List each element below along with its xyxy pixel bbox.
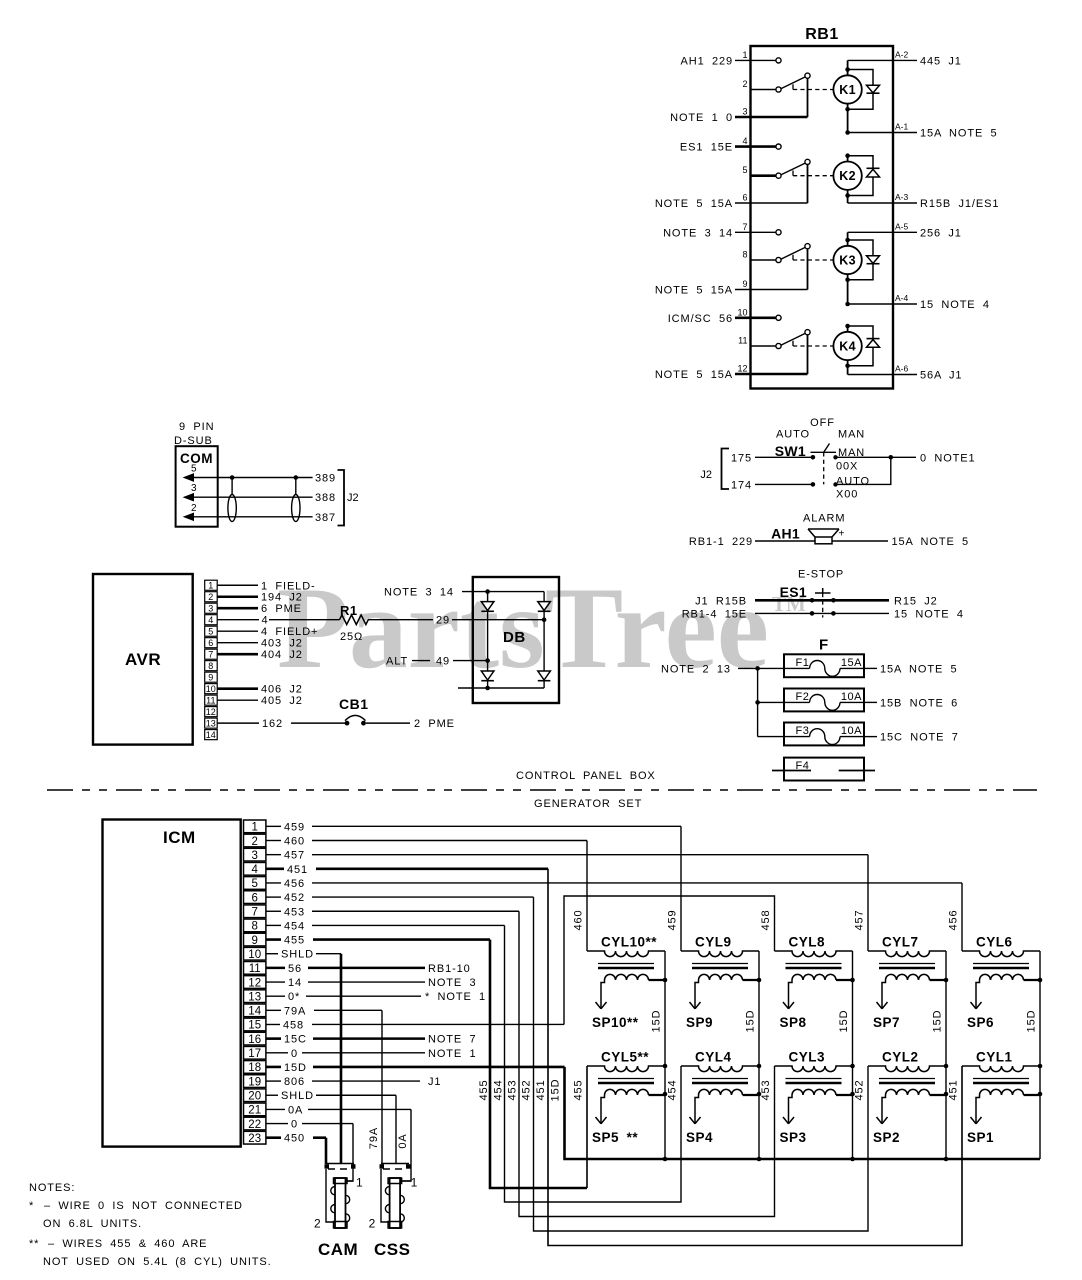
relay board RB1 — [751, 46, 894, 389]
sensor CAM body contacts — [331, 1187, 335, 1195]
svg-text:453: 453 — [760, 1079, 772, 1100]
svg-text:456: 456 — [284, 878, 305, 890]
svg-text:CB1: CB1 — [339, 696, 369, 712]
fuse feed junction — [755, 666, 760, 671]
wire CYL5 secondary to 15D rail — [649, 1094, 666, 1096]
wire 15D rail column CYL9 — [758, 951, 760, 1159]
COM pin 5 arrow — [193, 477, 218, 479]
DB top node — [485, 589, 490, 594]
RB1 output A-6 wire 56A J1 — [848, 374, 917, 376]
svg-text:NOTE 5 15A: NOTE 5 15A — [655, 285, 733, 297]
fuse F3 10A — [784, 723, 864, 746]
svg-text:CYL8: CYL8 — [789, 935, 826, 950]
svg-text:NOTE 7: NOTE 7 — [428, 1034, 477, 1046]
wire 4 from AVR pin 4 — [217, 619, 259, 621]
RB1 relay K3 actuator dashed link — [792, 255, 794, 260]
svg-text:5: 5 — [251, 878, 257, 890]
svg-text:16: 16 — [248, 1034, 261, 1046]
svg-text:K1: K1 — [839, 83, 856, 97]
svg-text:15D: 15D — [838, 1010, 850, 1033]
SW1 output contacts — [833, 455, 837, 459]
svg-text:7: 7 — [251, 907, 257, 919]
svg-text:6: 6 — [742, 193, 747, 203]
svg-text:56: 56 — [288, 963, 302, 975]
svg-text:NOTE 5 15A: NOTE 5 15A — [655, 198, 733, 210]
svg-text:5: 5 — [742, 165, 747, 175]
wire 6 PME from AVR pin 3 — [217, 607, 258, 610]
svg-text:ON 6.8L UNITS.: ON 6.8L UNITS. — [43, 1218, 142, 1230]
fuse F2 10A — [784, 689, 864, 712]
svg-text:458: 458 — [283, 1019, 304, 1031]
RB1 pin8 contact — [776, 257, 781, 262]
wire 0 from ICM pin 17 — [266, 1052, 288, 1054]
svg-text:AUTO: AUTO — [836, 476, 870, 488]
svg-text:3: 3 — [208, 604, 213, 614]
DB diode 4 — [538, 671, 551, 680]
wire 0A from ICM pin 21 — [266, 1108, 285, 1110]
wire 1 FIELD- from AVR pin 1 — [217, 584, 258, 586]
J2 bracket — [722, 449, 730, 490]
node CYL4 secondary junction — [757, 1092, 762, 1097]
sensor CSS pin2 drain wire — [381, 1169, 390, 1222]
svg-text:MAN: MAN — [838, 429, 865, 441]
svg-text:NOTE 1 0: NOTE 1 0 — [670, 112, 733, 124]
svg-text:4: 4 — [262, 615, 269, 627]
wire 15D rail column CYL7 — [945, 951, 947, 1159]
svg-text:14: 14 — [206, 730, 216, 740]
svg-text:452: 452 — [521, 1079, 533, 1100]
svg-text:2: 2 — [251, 836, 257, 848]
svg-text:– WIRES 455 & 460 ARE: – WIRES 455 & 460 ARE — [48, 1238, 207, 1250]
svg-text:11: 11 — [206, 696, 215, 706]
DB bottom node — [485, 686, 490, 691]
RB1 relay K4 actuator dashed link — [792, 341, 794, 346]
svg-text:CYL10**: CYL10** — [601, 935, 657, 950]
wire 194 J2 from AVR pin 2 — [217, 595, 258, 598]
svg-text:29: 29 — [436, 615, 450, 627]
svg-text:14: 14 — [288, 977, 302, 989]
svg-text:CYL1: CYL1 — [976, 1050, 1013, 1065]
wire 388 — [218, 496, 313, 498]
wire SW1 lower to junction — [836, 457, 891, 484]
svg-text:389: 389 — [315, 473, 336, 485]
svg-text:1: 1 — [411, 1176, 418, 1190]
sensor connector CSS body — [390, 1178, 401, 1228]
svg-text:15C: 15C — [284, 1034, 307, 1046]
relay K2 diode branch — [845, 153, 850, 158]
svg-text:15D: 15D — [1026, 1010, 1038, 1033]
svg-text:F2: F2 — [796, 691, 810, 703]
fuse F3 element — [784, 736, 810, 738]
DB left rail — [487, 592, 489, 688]
svg-text:SP9: SP9 — [686, 1015, 713, 1030]
svg-text:8: 8 — [742, 250, 747, 260]
svg-text:1: 1 — [208, 581, 213, 591]
node junction — [889, 455, 894, 460]
sensor CSS body contacts — [385, 1187, 389, 1195]
wire 15D rail column CYL8 — [852, 951, 854, 1159]
svg-text:459: 459 — [667, 909, 679, 930]
DB bottom wire — [458, 687, 544, 689]
svg-text:388: 388 — [315, 492, 336, 504]
wire 387 — [218, 516, 313, 518]
diode bridge DB — [473, 577, 559, 703]
wire 458 route — [564, 896, 775, 1024]
svg-text:J1 R15B: J1 R15B — [695, 595, 747, 607]
svg-text:79A: 79A — [284, 1005, 306, 1017]
wire SHLD vertical to CAM — [340, 954, 343, 1163]
svg-text:SP4: SP4 — [686, 1130, 713, 1145]
svg-text:2: 2 — [369, 1217, 376, 1231]
fuse F2 feed — [755, 700, 760, 705]
spark plug lead SP2 — [882, 1095, 886, 1124]
wire from 4 to R1 — [269, 619, 340, 621]
RB1 relay K1 actuator dashed link — [792, 84, 794, 89]
svg-text:460: 460 — [573, 909, 585, 930]
flyback diode of K2 — [867, 167, 880, 169]
svg-text:1: 1 — [356, 1176, 363, 1190]
wire SHLD vertical to CSS — [395, 1095, 397, 1163]
wire AH1 to 15A NOTE 5 — [832, 540, 888, 542]
relay coil K3 — [833, 246, 861, 274]
wire 454 trunk — [505, 925, 682, 1202]
wire 162 from AVR pin 13 — [217, 722, 259, 724]
svg-text:RB1: RB1 — [805, 26, 839, 43]
svg-text:15: 15 — [248, 1020, 261, 1032]
svg-text:5: 5 — [191, 464, 197, 475]
SW1 actuator dashed line — [823, 452, 825, 484]
svg-text:A-1: A-1 — [895, 122, 909, 132]
wire CYL8 secondary to 15D rail — [836, 979, 853, 981]
svg-text:15B NOTE 6: 15B NOTE 6 — [880, 697, 958, 709]
svg-text:F: F — [819, 637, 829, 654]
node CYL1 secondary junction — [1038, 1092, 1043, 1097]
AVR pin strip — [205, 580, 218, 590]
wire 806 from ICM pin 19 — [266, 1080, 281, 1082]
wire 29 to DB — [452, 619, 544, 621]
RB1 pin2 contact — [776, 87, 781, 92]
15D bus junction at x=665 — [663, 1157, 668, 1162]
RB1 pin10 contact — [776, 315, 781, 320]
node CYL6 secondary junction — [1038, 978, 1043, 983]
svg-text:F3: F3 — [796, 725, 810, 737]
wire 451 trunk — [548, 869, 962, 1246]
svg-text:ICM: ICM — [163, 828, 196, 847]
svg-text:10: 10 — [248, 949, 261, 961]
svg-text:NOTE 3 14: NOTE 3 14 — [384, 587, 454, 599]
spark plug lead SP5 — [601, 1095, 605, 1124]
svg-text:2: 2 — [191, 503, 197, 514]
svg-text:R15B J1/ES1: R15B J1/ES1 — [920, 198, 999, 210]
svg-text:15A NOTE 5: 15A NOTE 5 — [892, 536, 970, 548]
svg-text:17: 17 — [248, 1048, 261, 1060]
node CYL5 secondary junction — [663, 1092, 668, 1097]
flyback diode of K3 — [867, 256, 880, 264]
DB diode 1 — [481, 602, 494, 611]
RB1 output A-4 wire 15 NOTE 4 — [848, 303, 917, 305]
svg-text:A-2: A-2 — [895, 49, 909, 59]
svg-text:15A: 15A — [841, 657, 862, 669]
svg-text:13: 13 — [248, 991, 261, 1003]
wire 460 from ICM pin 2 — [266, 840, 281, 842]
svg-text:* NOTE 1: * NOTE 1 — [425, 991, 486, 1003]
svg-text:SP10**: SP10** — [592, 1015, 639, 1030]
wire 454 from ICM pin 8 — [266, 924, 281, 926]
svg-text:5: 5 — [208, 627, 213, 637]
svg-text:454: 454 — [284, 920, 305, 932]
svg-text:175: 175 — [731, 452, 752, 464]
svg-text:11: 11 — [249, 963, 261, 975]
wire 15D trunk and ground bus — [565, 1067, 1041, 1159]
svg-text:NOTE 3 14: NOTE 3 14 — [663, 227, 733, 239]
svg-text:CYL2: CYL2 — [882, 1050, 919, 1065]
svg-text:A-4: A-4 — [895, 293, 909, 303]
svg-text:456: 456 — [948, 909, 960, 930]
svg-text:6 PME: 6 PME — [261, 603, 302, 615]
wire CYL6 secondary to 15D rail — [1024, 979, 1041, 981]
wire SHLD from ICM pin 10 — [266, 953, 278, 955]
relay K1 coil rail — [847, 60, 849, 75]
relay K1 diode branch — [845, 67, 850, 72]
J2 bracket for wires 389/388/387 — [338, 470, 345, 526]
COM pin 3 arrow — [193, 496, 218, 498]
svg-text:SP1: SP1 — [967, 1130, 994, 1145]
wire 0 into CAM pin1 — [346, 1180, 353, 1182]
svg-text:6: 6 — [208, 638, 213, 648]
wire to RB1-2 — [751, 89, 777, 91]
svg-text:18: 18 — [248, 1062, 261, 1074]
svg-text:NOTES:: NOTES: — [29, 1182, 75, 1194]
wire 15D from ICM pin 18 — [266, 1066, 281, 1069]
svg-text:2: 2 — [742, 79, 747, 89]
wire 456 from ICM pin 5 — [266, 882, 281, 884]
svg-text:0: 0 — [291, 1119, 298, 1131]
svg-text:ICM/SC 56: ICM/SC 56 — [668, 313, 733, 325]
RB1 pin7 contact — [776, 230, 781, 235]
spark plug lead SP9 — [695, 980, 699, 1009]
SW1 contact node — [811, 455, 816, 460]
svg-text:194 J2: 194 J2 — [261, 592, 303, 604]
RB1 pin1 contact — [776, 58, 781, 63]
svg-text:RB1-10: RB1-10 — [428, 963, 471, 975]
wire CYL7 secondary to 15D rail — [930, 979, 947, 981]
wire to RB1-11 — [751, 345, 777, 347]
svg-text:CYL3: CYL3 — [789, 1050, 826, 1065]
svg-text:NOTE 1: NOTE 1 — [428, 1048, 477, 1060]
svg-text:SHLD: SHLD — [281, 949, 314, 961]
svg-text:K2: K2 — [839, 169, 856, 183]
wire 460 vertical — [586, 841, 588, 951]
svg-text:451: 451 — [535, 1079, 547, 1100]
15D bus junction at x=946 — [944, 1157, 949, 1162]
RB1 relay K3 switch arm — [781, 247, 805, 259]
svg-text:CYL7: CYL7 — [882, 935, 919, 950]
sensor CAM pin2 drain wire — [326, 1169, 335, 1222]
svg-text:6: 6 — [251, 892, 257, 904]
svg-text:J1: J1 — [428, 1076, 441, 1088]
svg-text:1 FIELD-: 1 FIELD- — [261, 580, 316, 592]
relay coil K1 — [833, 75, 861, 103]
svg-text:12: 12 — [248, 977, 261, 989]
RB1 pin4 contact — [776, 144, 781, 149]
wire 450 from ICM pin 23 — [266, 1136, 281, 1139]
node CYL1 primary junction — [1038, 1064, 1043, 1069]
svg-text:DB: DB — [503, 629, 526, 646]
svg-text:AVR: AVR — [125, 650, 161, 669]
flyback diode of K1 — [867, 85, 880, 93]
RB1 output A-3 wire R15B J1/ES1 — [848, 202, 917, 204]
wire 15D rail column CYL6 — [1039, 951, 1041, 1159]
wire 450 vertical to CAM — [325, 1138, 328, 1164]
wire 405 J2 from AVR pin 11 — [217, 699, 258, 701]
svg-text:79A: 79A — [368, 1127, 380, 1149]
fuse F1 element — [784, 667, 810, 669]
RB1 output A-2 wire 445 J1 — [848, 59, 917, 61]
svg-text:22: 22 — [248, 1119, 261, 1131]
svg-text:453: 453 — [507, 1079, 519, 1100]
svg-text:10: 10 — [737, 307, 747, 317]
fuse F4 spare stubs — [772, 770, 811, 772]
svg-text:457: 457 — [284, 850, 305, 862]
svg-text:2: 2 — [314, 1217, 321, 1231]
svg-text:454: 454 — [493, 1079, 505, 1100]
relay K3 diode branch — [845, 238, 850, 243]
wire 162 to CB1 — [291, 722, 347, 724]
wire to RB1-5 — [751, 174, 777, 177]
svg-text:56A J1: 56A J1 — [920, 370, 962, 382]
svg-text:49: 49 — [436, 656, 450, 668]
svg-text:SP5 **: SP5 ** — [592, 1130, 638, 1145]
svg-text:AH1: AH1 — [771, 526, 800, 542]
svg-text:**: ** — [29, 1238, 39, 1250]
svg-text:ALARM: ALARM — [803, 513, 845, 525]
svg-text:450: 450 — [284, 1133, 305, 1145]
svg-text:15A NOTE 5: 15A NOTE 5 — [920, 128, 998, 140]
svg-text:4: 4 — [742, 136, 747, 146]
DB node 29 — [542, 617, 547, 622]
svg-text:J2: J2 — [347, 492, 359, 504]
RB1 relay K2 actuator dashed link — [792, 171, 794, 176]
shield loop 1 — [231, 478, 233, 495]
node CYL9 secondary junction — [757, 978, 762, 983]
svg-text:10A: 10A — [841, 691, 862, 703]
svg-text:1: 1 — [251, 822, 257, 834]
spark plug lead SP3 — [789, 1095, 793, 1124]
svg-text:ALT: ALT — [386, 656, 408, 668]
svg-text:NOTE 2 13: NOTE 2 13 — [661, 663, 731, 675]
fuse F3 feed — [758, 736, 784, 738]
svg-text:E-STOP: E-STOP — [798, 569, 844, 581]
node CYL5 primary junction — [663, 1064, 668, 1069]
panel boundary dashed line — [47, 789, 1037, 791]
wire 0A into CSS pin1 — [400, 1180, 411, 1182]
svg-text:15A NOTE 5: 15A NOTE 5 — [880, 663, 958, 675]
spark plug lead SP6 — [976, 980, 980, 1009]
wire 403 J2 from AVR pin 6 — [217, 642, 258, 644]
svg-text:19: 19 — [248, 1076, 261, 1088]
wire CYL9 secondary to 15D rail — [743, 979, 760, 981]
flyback diode of K4 — [867, 338, 880, 340]
node on wire 389 — [230, 475, 235, 480]
fuse F4 — [784, 758, 864, 781]
svg-text:K4: K4 — [839, 340, 856, 354]
svg-text:8: 8 — [208, 661, 213, 671]
svg-text:457: 457 — [854, 909, 866, 930]
15D bus junction at x=852.5 — [850, 1157, 855, 1162]
svg-text:SP6: SP6 — [967, 1015, 994, 1030]
DB node ALT — [485, 658, 490, 663]
svg-text:25Ω: 25Ω — [340, 631, 363, 643]
wire 453 from ICM pin 7 — [266, 910, 281, 912]
RB1 relay K1 switch arm — [781, 77, 805, 89]
svg-text:CYL5**: CYL5** — [601, 1050, 649, 1065]
svg-text:455: 455 — [284, 935, 305, 947]
svg-text:SP8: SP8 — [780, 1015, 807, 1030]
DB right rail — [543, 592, 545, 688]
wire 0* from ICM pin 13 — [266, 995, 285, 997]
svg-text:R15 J2: R15 J2 — [894, 595, 938, 607]
sensor connector CSS shield — [381, 1163, 409, 1165]
svg-text:SHLD: SHLD — [281, 1090, 314, 1102]
svg-text:174: 174 — [731, 479, 752, 491]
wire 458 from ICM pin 15 — [266, 1023, 280, 1025]
svg-text:15D: 15D — [550, 1079, 562, 1102]
svg-text:0A: 0A — [288, 1104, 303, 1116]
wire from fuse F3 — [864, 736, 877, 738]
wire 451 from ICM pin 4 — [266, 868, 284, 871]
relay K4 diode branch — [845, 324, 850, 329]
svg-text:4: 4 — [251, 864, 258, 876]
wire SHLD from ICM pin 20 — [266, 1094, 278, 1096]
svg-text:X00: X00 — [836, 489, 858, 501]
svg-text:162: 162 — [262, 718, 283, 730]
wire 455 trunk — [490, 940, 587, 1188]
voltage regulator AVR — [93, 574, 193, 745]
svg-text:10A: 10A — [841, 725, 862, 737]
wire 4 FIELD+ from AVR pin 5 — [217, 630, 258, 632]
relay K2 coil rail — [847, 156, 849, 162]
svg-text:15D: 15D — [284, 1062, 307, 1074]
fuse feed vertical — [757, 668, 759, 736]
svg-text:GENERATOR SET: GENERATOR SET — [534, 798, 642, 810]
wire 15C from ICM pin 16 — [266, 1037, 281, 1040]
wire 457 from ICM pin 3 — [266, 854, 281, 856]
svg-text:455: 455 — [573, 1079, 585, 1100]
node A-4 junction — [845, 302, 850, 307]
svg-text:0A: 0A — [397, 1133, 409, 1148]
svg-text:23: 23 — [248, 1133, 261, 1145]
spark plug lead SP1 — [976, 1095, 980, 1124]
svg-text:A-5: A-5 — [895, 221, 909, 231]
wire 0A vertical to CSS — [402, 1109, 411, 1181]
svg-text:452: 452 — [284, 892, 305, 904]
svg-text:CAM: CAM — [318, 1240, 358, 1259]
svg-text:453: 453 — [284, 906, 305, 918]
svg-text:F1: F1 — [796, 657, 810, 669]
ES1 actuator symbol — [822, 588, 824, 593]
svg-text:7: 7 — [208, 650, 213, 660]
svg-text:CSS: CSS — [374, 1240, 410, 1259]
svg-text:460: 460 — [284, 836, 305, 848]
ICM pin strip — [244, 820, 266, 833]
RB1 pin5 contact — [776, 173, 781, 178]
wire 459 from ICM pin 1 — [266, 825, 281, 827]
relay coil K2 — [833, 162, 861, 190]
svg-text:RB1-4 15E: RB1-4 15E — [682, 608, 747, 620]
relay K4 coil rail — [847, 326, 849, 332]
svg-text:NOT USED ON 5.4L (8 CYL) UNITS: NOT USED ON 5.4L (8 CYL) UNITS. — [43, 1256, 272, 1268]
node CYL7 secondary junction — [944, 978, 949, 983]
